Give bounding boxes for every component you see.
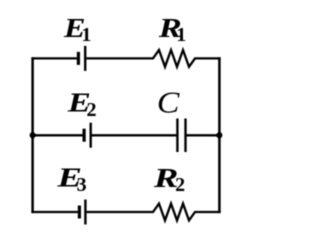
wire bottom-left segment xyxy=(31,211,78,213)
node right junction xyxy=(216,132,222,138)
wire top-left segment xyxy=(31,57,77,59)
wire left rail xyxy=(31,57,34,213)
wire middle-left segment xyxy=(31,134,82,136)
node left junction xyxy=(30,132,36,138)
svg-text:1: 1 xyxy=(176,24,186,46)
battery E3 xyxy=(79,200,85,225)
svg-text:2: 2 xyxy=(87,99,97,121)
wire middle segment xyxy=(91,134,177,136)
battery E1 xyxy=(78,46,85,71)
svg-text:C: C xyxy=(157,84,180,119)
battery E2 xyxy=(84,123,91,148)
capacitor C xyxy=(177,119,185,153)
svg-text:3: 3 xyxy=(77,174,87,196)
svg-text:2: 2 xyxy=(175,174,185,196)
wire right rail xyxy=(218,57,221,213)
svg-text:1: 1 xyxy=(81,24,91,46)
resistor R1 with leads xyxy=(86,50,220,67)
resistor R2 with leads xyxy=(87,204,221,221)
wire middle-right segment xyxy=(186,134,221,136)
